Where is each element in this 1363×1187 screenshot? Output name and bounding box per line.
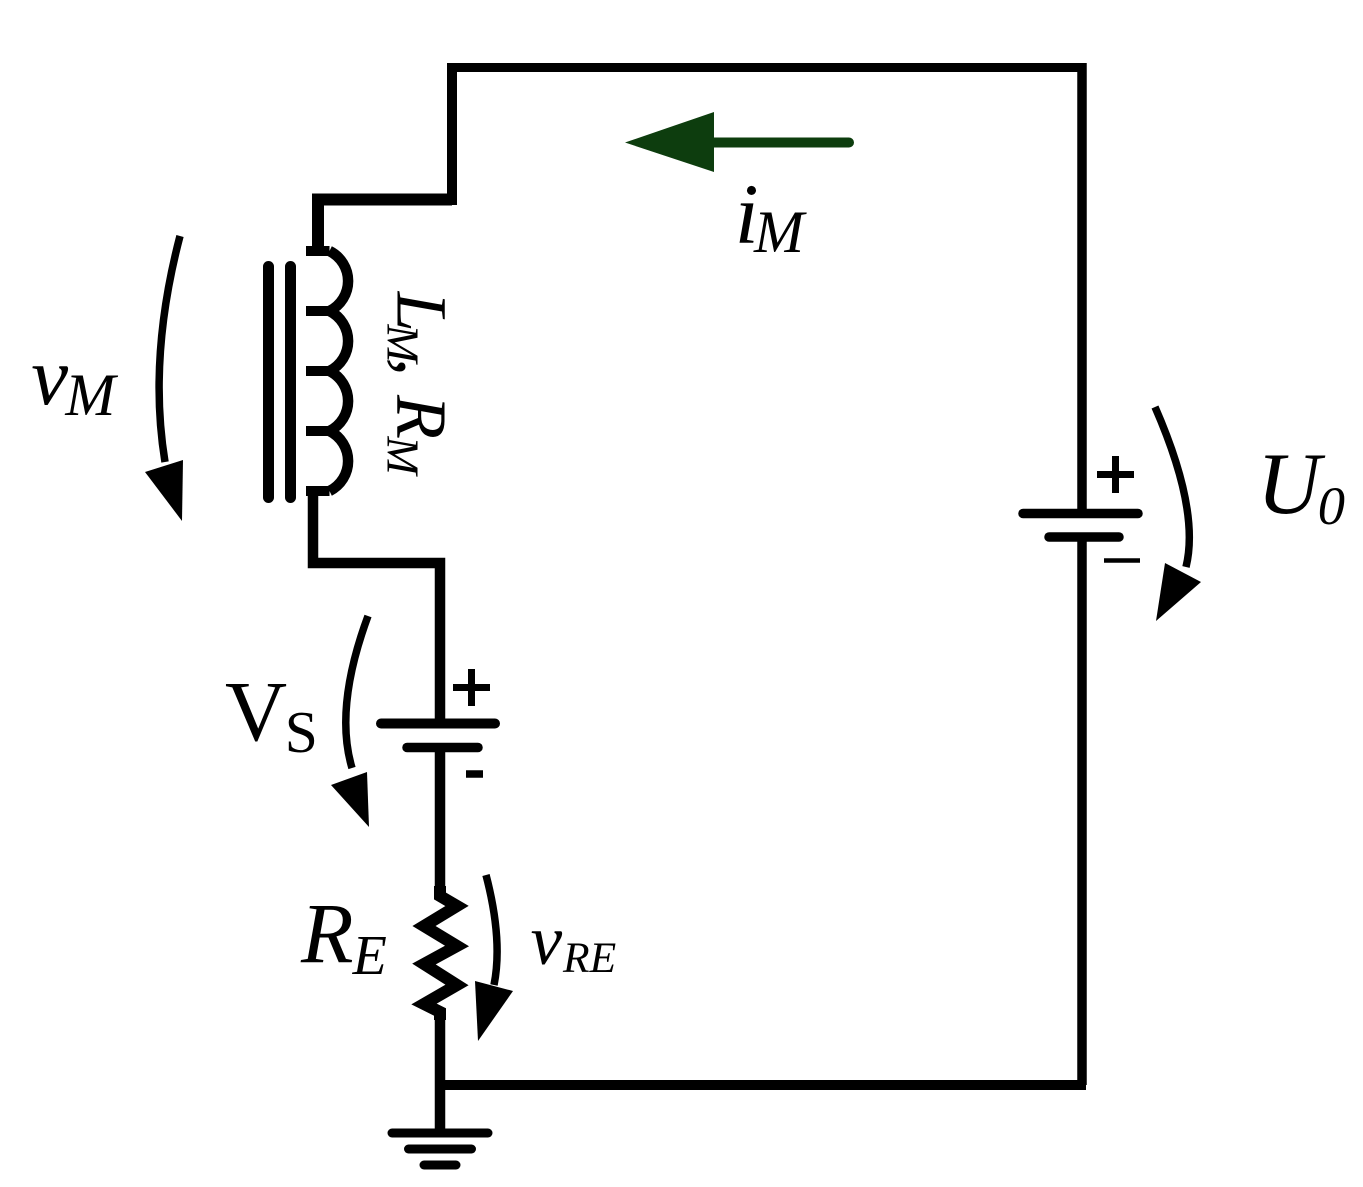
wire VS battery to resistor RE (435, 748, 446, 895)
svg-text:M: M (64, 362, 118, 428)
wire resistor to ground (435, 1011, 446, 1133)
curved voltage arrow VS (left of battery VS) (331, 616, 369, 827)
svg-text:RE: RE (562, 934, 616, 982)
battery VS minus sign (466, 770, 483, 778)
svg-text:0: 0 (1318, 475, 1345, 536)
battery U0 bottom plate (short, -) (1049, 532, 1119, 542)
label iM (current) (735, 166, 807, 265)
label RE (300, 885, 387, 987)
wire left riser up to top rail (447, 68, 457, 205)
svg-text:R: R (382, 394, 462, 439)
battery U0 plus sign (1097, 456, 1134, 493)
label vM (31, 330, 118, 428)
inductor core bar left (263, 267, 274, 498)
label vRE (531, 902, 617, 982)
wire right rail lower (battery U0 bottom plate down to bottom rail) (1077, 538, 1087, 1085)
curved voltage arrow vRE (right of resistor) (475, 875, 513, 1041)
battery VS top plate (long, +) (381, 719, 495, 729)
ground bar 2 (middle) (409, 1145, 472, 1154)
svg-text:U: U (1257, 436, 1326, 533)
wire top-left connector from inductor coil top to left riser (318, 200, 452, 254)
green current arrow iM pointing left along top rail (625, 112, 849, 172)
wire right rail upper (top rail corner down to battery U0 top plate) (1077, 63, 1087, 512)
resistor RE zigzag (424, 886, 457, 1020)
label U0 (1257, 436, 1345, 536)
wire bottom rail (440, 1080, 1086, 1090)
label LM, RM (rotated 90deg) (378, 291, 463, 478)
curved voltage arrow vM (left of inductor) (145, 236, 183, 521)
svg-text:v: v (531, 902, 563, 980)
svg-text:S: S (285, 699, 318, 765)
svg-text:R: R (300, 885, 354, 981)
svg-text:M: M (753, 199, 807, 265)
label VS (225, 663, 318, 765)
inductor LM coil (4 arcs) (306, 251, 348, 491)
svg-text:E: E (352, 925, 387, 987)
ground bar 1 (top, widest) (392, 1129, 488, 1138)
wire inductor bottom connector to VS battery top lead (313, 489, 440, 719)
svg-text:,: , (382, 358, 462, 376)
battery U0 top plate (long, +) (1023, 509, 1138, 519)
ground bar 3 (bottom, narrowest) (424, 1161, 456, 1170)
svg-text:V: V (225, 663, 287, 759)
curved voltage arrow U0 (right of battery U0) (1155, 407, 1201, 621)
inductor core bar right (285, 267, 296, 498)
battery VS bottom plate (short, -) (407, 743, 478, 753)
svg-text:v: v (31, 330, 68, 422)
svg-text:M: M (378, 435, 429, 477)
battery VS plus sign (453, 669, 490, 706)
battery U0 minus sign (1104, 558, 1140, 563)
wire top rail (447, 63, 1087, 72)
